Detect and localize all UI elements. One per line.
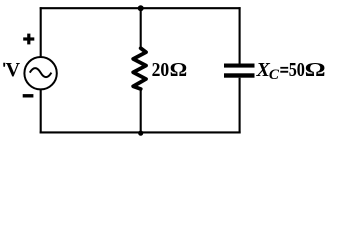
wire middle lower (resistor bottom lead): [140, 89, 142, 132]
svg-text:Ω: Ω: [170, 59, 188, 81]
svg-text:50: 50: [289, 59, 305, 81]
wire left upper (source top lead): [40, 7, 42, 57]
wire bottom: [40, 131, 241, 133]
node junction dot top: [138, 5, 144, 11]
wire middle upper (resistor top lead): [140, 8, 142, 49]
wire top (node A to node B): [40, 7, 241, 9]
svg-text:20: 20: [152, 59, 170, 81]
wire left lower (source bottom lead): [40, 90, 42, 134]
AC source sine wave: [30, 68, 52, 77]
wire right lower (capacitor bottom lead): [239, 78, 241, 134]
capacitor top plate: [224, 64, 255, 68]
svg-text:V: V: [6, 59, 21, 81]
wire right upper (capacitor top lead): [239, 7, 241, 63]
polarity plus sign: [23, 34, 34, 45]
capacitor bottom plate: [224, 73, 255, 77]
svg-text:C: C: [269, 67, 280, 83]
svg-text:Ω: Ω: [305, 59, 326, 81]
resistor zigzag: [133, 48, 146, 89]
AC source V circle: [24, 57, 56, 89]
node junction dot bottom: [138, 131, 143, 136]
capacitor label equals sign: [280, 67, 288, 69]
cropped character fragment before V: [3, 63, 5, 67]
polarity minus sign: [23, 94, 34, 97]
